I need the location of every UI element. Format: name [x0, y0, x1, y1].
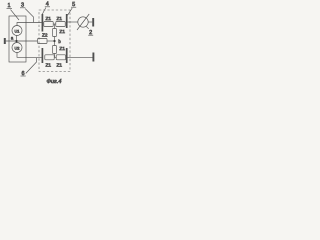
input terminal bar bottom (lower)	[41, 48, 43, 63]
wire terminal a to node a and Z2	[6, 40, 38, 42]
label 4	[45, 2, 50, 8]
voltage source U1	[12, 26, 22, 36]
svg-text:Z1: Z1	[45, 63, 51, 69]
leader line for label 3	[25, 9, 33, 23]
indicator instrument 2 (crossed circle)	[77, 14, 89, 30]
wire top rail mid	[53, 23, 56, 25]
svg-text:Z1: Z1	[56, 16, 62, 22]
svg-text:a: a	[11, 36, 14, 41]
wire vertical Z1 to node b	[54, 37, 56, 46]
leader line for label 2	[86, 26, 89, 29]
svg-text:Z1: Z1	[45, 16, 51, 22]
leader line for label 1	[11, 10, 20, 20]
wire bottom rail mid	[54, 56, 56, 58]
leader line for label 6	[26, 58, 37, 73]
node b dot	[53, 40, 55, 42]
source box 1	[9, 16, 26, 62]
node a dot	[15, 40, 17, 42]
dashed network box	[39, 10, 70, 72]
svg-text:Z2: Z2	[42, 33, 48, 39]
wire U1 bottom to U2 top link	[16, 36, 18, 43]
impedance Z1 block top-left	[44, 16, 53, 26]
svg-text:U2: U2	[15, 45, 20, 50]
wire U2 bottom to lower rail	[17, 53, 42, 58]
leader line for label 4	[42, 8, 46, 15]
svg-text:1: 1	[7, 3, 10, 9]
output terminal bar bottom (lower)	[66, 48, 68, 63]
input terminal bar top (upper)	[41, 14, 43, 32]
label 6	[21, 71, 26, 77]
wire lower output to bottom right terminal	[68, 56, 93, 58]
svg-text:Z1: Z1	[59, 46, 65, 52]
wire top junction to vertical Z1	[54, 24, 56, 29]
impedance Z1 block vertical upper	[53, 29, 66, 37]
terminal bar bottom right	[92, 53, 94, 62]
impedance Z1 block bottom-left	[45, 55, 54, 69]
svg-text:U1: U1	[15, 28, 20, 33]
wire indicator to top right terminal	[88, 21, 92, 23]
leader line for label 5	[68, 8, 73, 15]
impedance Z1 block vertical lower	[53, 46, 66, 54]
terminal bar top right	[92, 18, 94, 27]
impedance Z1 block bottom-right	[56, 55, 65, 69]
svg-text:Z1: Z1	[59, 29, 65, 35]
label 2	[88, 30, 93, 36]
terminal a external bar	[4, 38, 6, 44]
wire upper output to indicator	[68, 21, 78, 23]
svg-text:b: b	[58, 39, 61, 44]
impedance Z1 block top-right	[56, 16, 65, 27]
svg-text:Фиг.4: Фиг.4	[47, 79, 62, 85]
wire Z2 to node b	[47, 40, 55, 42]
label 3	[20, 2, 25, 8]
impedance Z2 block	[38, 33, 48, 44]
wire U1 top to upper rail	[17, 23, 42, 26]
svg-text:Z1: Z1	[56, 63, 62, 69]
output terminal bar top (upper)	[66, 14, 68, 28]
label 1	[7, 3, 13, 9]
wire vertical Z1 lower to bottom rail	[54, 54, 56, 58]
label 5	[71, 2, 76, 8]
voltage source U2	[12, 43, 22, 53]
